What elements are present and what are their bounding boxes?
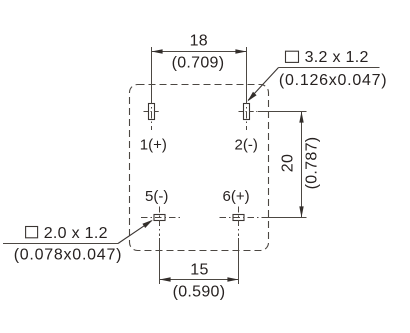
dim 20 arrow bottom [299, 206, 303, 217]
pin 2 vertical centerline [246, 97, 248, 130]
callout 2.0x1.2 leader arrow [142, 220, 153, 228]
svg-text:6(+): 6(+) [223, 188, 250, 205]
dim 15 extension line right [238, 238, 240, 284]
dim 20 arrow top [299, 112, 303, 123]
pin 2 hole (3.2 x 1.2) [244, 104, 250, 120]
callout 2.0x1.2 underline [3, 243, 118, 245]
dim 15 line [160, 279, 239, 281]
pin 1 hole (3.2 x 1.2) [149, 104, 155, 120]
svg-text:(0.126x0.047): (0.126x0.047) [279, 72, 387, 89]
pin 1 horizontal centerline [144, 111, 161, 113]
pin 6 horizontal centerline [220, 217, 263, 219]
dim 15 arrow left [160, 277, 171, 281]
callout 2.0x1.2 square symbol [26, 227, 38, 238]
svg-text:(0.590): (0.590) [173, 283, 226, 300]
svg-text:3.2 x 1.2: 3.2 x 1.2 [305, 49, 369, 66]
svg-text:15: 15 [190, 262, 208, 279]
pin 1 vertical centerline [151, 97, 153, 130]
svg-text:2.0 x 1.2: 2.0 x 1.2 [44, 225, 108, 242]
callout 3.2x1.2 square symbol [286, 51, 299, 62]
dim 18 extension line right [246, 47, 248, 100]
pin 2 horizontal centerline [239, 111, 259, 113]
svg-text:(0.709): (0.709) [172, 55, 225, 72]
pin 5 vertical centerline [159, 207, 161, 237]
dim 18 arrow right [235, 49, 246, 53]
pin 5 hole (2.0 x 1.2) [154, 215, 165, 221]
pin 6 vertical centerline [238, 207, 240, 237]
callout 3.2x1.2 underline [279, 67, 380, 69]
pin 5 horizontal centerline [141, 217, 180, 219]
svg-text:5(-): 5(-) [145, 188, 168, 205]
dim 18 line [152, 51, 247, 53]
dim 20 extension line bottom [262, 217, 307, 219]
svg-text:(0.078x0.047): (0.078x0.047) [14, 247, 122, 264]
relay body outline (dashed) [130, 85, 269, 251]
callout 2.0x1.2 leader [118, 221, 152, 244]
svg-text:(0.787): (0.787) [304, 137, 321, 190]
pin 6 hole (2.0 x 1.2) [233, 215, 244, 221]
dim 15 arrow right [227, 277, 238, 281]
dim 18 extension line left [151, 47, 153, 100]
dim 20 line [301, 112, 303, 218]
svg-text:1(+): 1(+) [140, 136, 167, 153]
dim 15 extension line left [159, 238, 161, 284]
callout 3.2x1.2 leader [248, 68, 278, 101]
dim 18 arrow left [152, 49, 163, 53]
callout 3.2x1.2 leader arrow [247, 92, 256, 102]
svg-text:18: 18 [190, 33, 208, 50]
dim 20 extension line top [258, 111, 307, 113]
svg-text:20: 20 [280, 154, 297, 172]
svg-text:2(-): 2(-) [235, 136, 258, 153]
